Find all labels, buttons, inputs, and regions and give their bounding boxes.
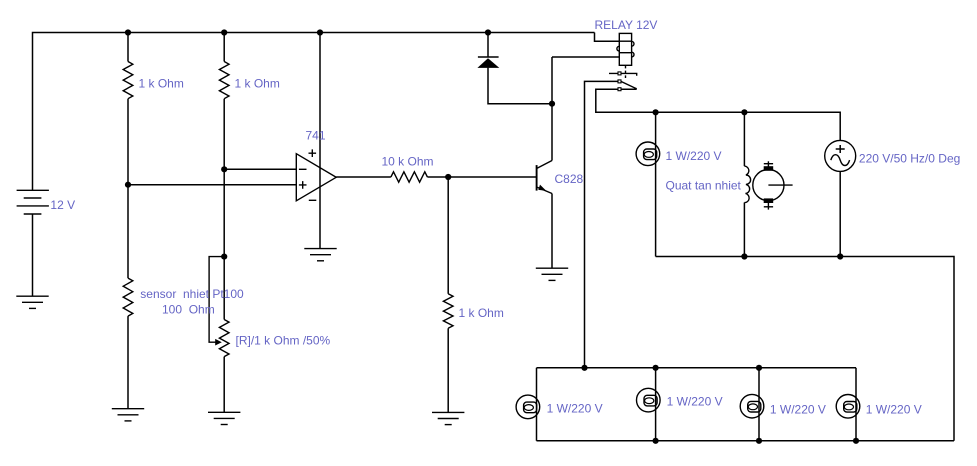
diode D1 xyxy=(477,57,499,68)
node lamp rail feed xyxy=(581,365,587,371)
node base junction xyxy=(445,174,451,180)
wire lamp L3 branch xyxy=(758,368,760,441)
svg-text:1 W/220 V: 1 W/220 V xyxy=(770,403,826,417)
wire R1 bottom to sensor node xyxy=(127,99,129,278)
svg-text:sensor nhiet Pt100: sensor nhiet Pt100 xyxy=(140,287,244,301)
node rail-R2 xyxy=(221,29,227,35)
node lamp bottom L2 xyxy=(653,438,659,444)
resistor sensor Pt100 xyxy=(123,278,133,316)
svg-text:RELAY 12V: RELAY 12V xyxy=(595,18,658,32)
wire emitter to ground xyxy=(551,194,553,269)
wire AC source bottom lead xyxy=(839,171,841,256)
wire op-amp supply line xyxy=(319,33,321,249)
battery B1 xyxy=(17,190,49,214)
wire fan lamp branch xyxy=(655,112,657,256)
wire pot bottom to ground xyxy=(223,357,225,413)
lamp fan-section 1W/220V xyxy=(636,142,660,166)
node fan bottom motor xyxy=(741,253,747,259)
op-amp U1 741 triangle xyxy=(296,154,336,201)
wire rail to relay coil xyxy=(595,33,620,42)
op-amp minus input sign xyxy=(299,168,307,170)
node lamp rail L2 xyxy=(653,365,659,371)
relay NC contact stub xyxy=(609,73,637,75)
wire diode top lead xyxy=(487,33,489,57)
wire lamp L1 branch xyxy=(536,368,538,441)
wire R1 top lead xyxy=(127,33,129,62)
node fan rail motor xyxy=(741,109,747,115)
op-amp V+ sign xyxy=(309,149,317,157)
svg-text:220 V/50 Hz/0 Deg: 220 V/50 Hz/0 Deg xyxy=(859,152,960,166)
AC source V1 xyxy=(825,140,856,171)
resistor R1 1k xyxy=(123,62,133,99)
node lamp bottom L4 xyxy=(853,438,859,444)
ground potentiometer xyxy=(208,412,240,424)
node collector-diode xyxy=(549,101,555,107)
lamp L4 1W/220V xyxy=(836,395,860,419)
lamp L2 1W/220V xyxy=(637,388,661,412)
potentiometer wiper loop xyxy=(209,257,224,343)
resistor R 10k xyxy=(391,172,428,182)
relay contact pin squares xyxy=(618,72,621,91)
node fan bottom AC xyxy=(837,253,843,259)
svg-text:1 k Ohm: 1 k Ohm xyxy=(235,77,280,91)
wire battery negative lead xyxy=(32,214,34,296)
svg-text:[R]/1 k Ohm /50%: [R]/1 k Ohm /50% xyxy=(236,334,331,348)
wire lamp bank bottom rail xyxy=(537,440,955,442)
relay switch blade xyxy=(621,81,637,88)
wire lamp L2 branch xyxy=(655,368,657,441)
svg-text:741: 741 xyxy=(306,129,326,143)
node sensor junction xyxy=(125,182,131,188)
wire 10k to transistor base xyxy=(427,176,536,178)
svg-text:1 k Ohm: 1 k Ohm xyxy=(459,306,504,320)
node lamp rail L3 xyxy=(756,365,762,371)
svg-text:12 V: 12 V xyxy=(50,198,75,212)
relay K1 coil xyxy=(617,33,634,65)
svg-text:Quat tan nhiet: Quat tan nhiet xyxy=(666,179,742,193)
wire node to 1k resistor xyxy=(447,177,449,294)
wire diode bottom lead xyxy=(488,68,552,104)
svg-text:1 W/220 V: 1 W/220 V xyxy=(667,395,723,409)
wire top supply rail xyxy=(33,33,595,191)
wire motor branch top lead xyxy=(743,112,745,166)
svg-text:1 k Ohm: 1 k Ohm xyxy=(139,77,184,91)
ground emitter xyxy=(536,268,568,280)
svg-text:1 W/220 V: 1 W/220 V xyxy=(666,149,722,163)
svg-text:1 W/220 V: 1 W/220 V xyxy=(547,402,603,416)
potentiometer R element xyxy=(219,320,229,357)
op-amp plus input sign xyxy=(299,181,307,189)
transistor Q1 C828 xyxy=(537,161,552,194)
node fan rail lamp xyxy=(653,109,659,115)
wire inverting input xyxy=(224,168,296,170)
op-amp V- sign xyxy=(309,199,317,201)
wire sensor to ground xyxy=(127,316,129,409)
relay actuator dashed link xyxy=(625,66,627,80)
svg-text:1 W/220 V: 1 W/220 V xyxy=(866,403,922,417)
wire fan section bottom rail xyxy=(656,257,954,441)
wire lamp bank top rail xyxy=(537,367,857,369)
ground op-amp xyxy=(304,249,336,261)
wire relay NO contact to fan rail xyxy=(596,89,840,140)
wire R2 bottom to pot node xyxy=(223,99,225,257)
motor field coil xyxy=(744,166,750,203)
ground 1k pulldown xyxy=(432,412,464,424)
resistor R2 1k xyxy=(219,62,229,99)
wire collector to relay coil xyxy=(552,56,619,58)
node pot junction xyxy=(221,254,227,260)
node R2 inverting input xyxy=(221,166,227,172)
svg-text:100 Ohm: 100 Ohm xyxy=(162,303,215,317)
wire 1k to ground xyxy=(447,328,449,412)
wire R2 top lead xyxy=(223,33,225,62)
node rail-diode xyxy=(485,29,491,35)
wire lamp L4 branch xyxy=(855,368,857,441)
wire op-amp output xyxy=(336,176,391,178)
lamp L3 1W/220V xyxy=(740,394,764,418)
wire relay common to lamp bank xyxy=(585,81,619,367)
motor M1 xyxy=(753,161,793,209)
ground battery xyxy=(16,296,48,308)
wire motor branch bottom lead xyxy=(743,203,745,257)
node lamp bottom L3 xyxy=(756,438,762,444)
wire collector node vertical xyxy=(551,57,553,161)
ground sensor xyxy=(112,409,144,421)
resistor 1k base pulldown xyxy=(443,294,453,329)
lamp L1 1W/220V xyxy=(516,395,540,419)
wire pot top lead xyxy=(223,257,225,320)
wire non-inverting input xyxy=(128,184,296,186)
potentiometer wiper arrow xyxy=(215,339,222,346)
node rail-opamp supply xyxy=(317,29,323,35)
svg-text:C828: C828 xyxy=(555,172,584,186)
svg-text:10 k Ohm: 10 k Ohm xyxy=(382,155,434,169)
node rail-R1 xyxy=(125,29,131,35)
